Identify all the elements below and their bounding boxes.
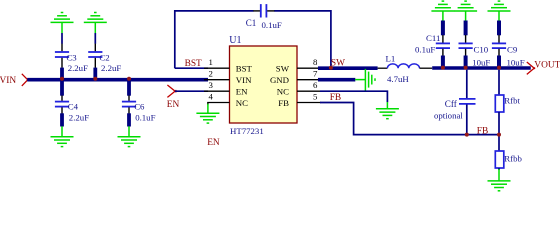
junction FB wire / Cff xyxy=(465,133,469,137)
capacitor C9 xyxy=(492,35,525,67)
capacitor C1 xyxy=(246,4,282,30)
junction VIN rail / C6 xyxy=(127,77,131,81)
svg-text:NC: NC xyxy=(277,87,289,97)
wire Cff bottom xyxy=(466,105,468,135)
svg-text:C3: C3 xyxy=(66,52,77,62)
ground earth above C10 xyxy=(454,1,477,11)
capacitor C11 xyxy=(415,33,450,56)
svg-text:Rfbb: Rfbb xyxy=(504,154,522,164)
wire output rail xyxy=(432,66,531,70)
svg-text:6: 6 xyxy=(313,80,318,90)
port VIN xyxy=(0,74,29,86)
ground earth right of GND pin xyxy=(355,69,375,91)
resistor Rfbb xyxy=(495,151,522,168)
wire SW rail xyxy=(318,66,378,70)
wire Cff top xyxy=(466,70,468,99)
wire C9 to rail xyxy=(497,56,501,69)
pin 6 NC stub xyxy=(297,90,321,92)
wire C9 to ground xyxy=(498,11,500,21)
junction VIN rail / C3 C4 xyxy=(60,77,64,81)
junction SW rail / BST leg xyxy=(329,66,333,70)
svg-text:optional: optional xyxy=(434,111,463,121)
wire C6 to ground xyxy=(127,113,131,126)
capacitor C2 xyxy=(88,44,121,73)
svg-text:EN: EN xyxy=(167,100,180,110)
capacitor C10 xyxy=(459,35,491,67)
capacitor C6 xyxy=(122,95,156,122)
svg-text:0.1uF: 0.1uF xyxy=(262,20,282,30)
svg-text:0.1uF: 0.1uF xyxy=(135,112,155,122)
junction output rail / C10 xyxy=(464,66,468,70)
ground earth below Rfbb xyxy=(488,181,511,191)
wire C2 to rail xyxy=(93,68,97,80)
svg-text:Rfbt: Rfbt xyxy=(504,96,520,106)
pin 7 GND stub xyxy=(297,79,321,81)
wire C4 to ground xyxy=(60,113,64,126)
pin 1 BST stub xyxy=(204,67,230,69)
svg-text:0.1uF: 0.1uF xyxy=(415,44,435,54)
junction output rail / C11 xyxy=(441,66,445,70)
svg-text:10uF: 10uF xyxy=(472,57,490,67)
svg-text:C9: C9 xyxy=(507,45,518,55)
IC U1 body xyxy=(230,46,298,123)
wire BST to pin1 xyxy=(175,67,208,69)
wire C4 from rail xyxy=(60,80,64,96)
wire C3 to ground xyxy=(61,22,63,33)
pin 2 VIN stub xyxy=(204,79,230,81)
wire FB net xyxy=(320,103,499,135)
wire Rfbb to ground xyxy=(498,168,500,170)
svg-text:2: 2 xyxy=(209,69,213,79)
ground earth above C2 xyxy=(84,13,107,23)
capacitor C3 xyxy=(55,44,88,73)
junction VIN rail / C2 xyxy=(93,77,97,81)
inductor L1 xyxy=(378,54,433,84)
wire C11 to ground xyxy=(442,11,444,21)
pin 8 SW stub xyxy=(297,67,321,69)
wire C11 to rail xyxy=(441,56,445,69)
svg-text:L1: L1 xyxy=(386,54,396,64)
capacitor C4 xyxy=(55,95,89,122)
svg-text:FB: FB xyxy=(477,127,488,137)
svg-text:EN: EN xyxy=(236,87,248,97)
svg-text:U1: U1 xyxy=(229,35,241,46)
ground earth below C6 xyxy=(118,137,141,147)
wire Rfbt to FB xyxy=(498,112,500,151)
svg-text:2.2uF: 2.2uF xyxy=(101,63,121,73)
ground earth above C11 xyxy=(431,1,454,11)
svg-text:VIN: VIN xyxy=(0,76,16,86)
wire GND pin to earth xyxy=(318,78,355,82)
svg-text:4.7uH: 4.7uH xyxy=(387,74,409,84)
port EN xyxy=(167,85,180,110)
ground earth above C3 xyxy=(51,13,74,23)
ground earth above C9 xyxy=(488,1,511,11)
ground earth below pin 4 xyxy=(196,113,219,123)
wire rail to Rfbt xyxy=(498,70,500,95)
svg-text:8: 8 xyxy=(313,57,318,67)
pin 3 EN stub xyxy=(204,90,230,92)
svg-text:VOUT: VOUT xyxy=(534,61,560,71)
svg-text:HT77231: HT77231 xyxy=(230,126,264,136)
svg-text:FB: FB xyxy=(330,93,341,103)
resistor Rfbt xyxy=(495,95,520,112)
svg-text:7: 7 xyxy=(313,69,318,79)
svg-text:FB: FB xyxy=(278,98,289,108)
junction output rail / C9 xyxy=(497,66,501,70)
wire pin6 NC net to ground xyxy=(320,91,387,102)
svg-text:4: 4 xyxy=(209,92,214,102)
svg-text:3: 3 xyxy=(209,80,214,90)
svg-text:2.2uF: 2.2uF xyxy=(68,63,88,73)
svg-text:C4: C4 xyxy=(68,101,79,111)
wire C10 to rail xyxy=(464,56,468,69)
wire pin4 down to ground xyxy=(207,103,209,105)
svg-text:SW: SW xyxy=(276,64,290,74)
wire EN to pin 3 xyxy=(175,90,208,92)
svg-text:EN: EN xyxy=(207,138,220,148)
svg-text:2.2uF: 2.2uF xyxy=(69,112,89,122)
svg-text:5: 5 xyxy=(313,92,318,102)
svg-text:C1: C1 xyxy=(246,18,257,28)
pin 4 NC stub xyxy=(207,102,229,104)
wire C10 to ground xyxy=(465,11,467,21)
svg-text:C2: C2 xyxy=(99,52,109,62)
svg-text:BST: BST xyxy=(236,64,253,74)
svg-text:C11: C11 xyxy=(426,33,440,43)
ground earth below C4 xyxy=(51,137,74,147)
ground earth below pin6 net xyxy=(376,109,399,119)
wire C6 from rail xyxy=(127,80,131,96)
wire C2 to ground xyxy=(94,22,96,33)
svg-text:Cff: Cff xyxy=(445,99,458,109)
svg-text:NC: NC xyxy=(236,98,248,108)
svg-text:VIN: VIN xyxy=(236,75,252,85)
svg-text:10uF: 10uF xyxy=(507,57,525,67)
wire BST net left leg and top run xyxy=(175,11,331,68)
junction FB wire / divider xyxy=(497,133,501,137)
svg-text:1: 1 xyxy=(209,57,213,67)
port VOUT xyxy=(527,61,560,75)
svg-text:C10: C10 xyxy=(474,45,489,55)
wire C3 to rail xyxy=(60,68,64,80)
capacitor Cff xyxy=(434,99,476,121)
pin 5 FB stub xyxy=(297,102,321,104)
svg-text:C6: C6 xyxy=(134,101,145,111)
svg-text:GND: GND xyxy=(270,75,289,85)
wire VIN rail xyxy=(27,78,208,82)
